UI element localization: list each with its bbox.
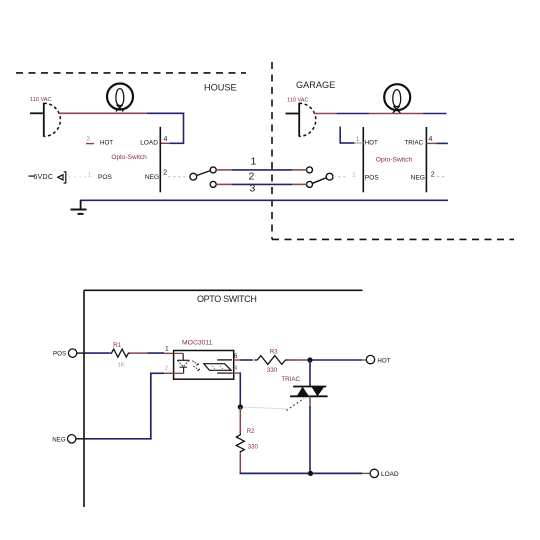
svg-text:3: 3	[250, 183, 256, 195]
svg-text:1K: 1K	[118, 363, 125, 369]
svg-text:R2: R2	[247, 428, 255, 435]
svg-text:1: 1	[251, 156, 257, 168]
svg-text:4: 4	[164, 136, 168, 143]
svg-text:NEG: NEG	[52, 436, 66, 443]
svg-text:NEG: NEG	[145, 174, 159, 181]
svg-text:R3: R3	[270, 349, 278, 356]
svg-text:6: 6	[234, 353, 238, 360]
svg-text:4: 4	[234, 365, 238, 372]
svg-text:R1: R1	[113, 342, 121, 349]
svg-text:LOAD: LOAD	[140, 140, 158, 147]
svg-text:2: 2	[165, 365, 169, 372]
svg-text:POS: POS	[53, 351, 66, 358]
svg-text:POS: POS	[365, 174, 380, 181]
svg-text:110 VAC: 110 VAC	[287, 97, 309, 103]
svg-text:330: 330	[248, 444, 259, 451]
svg-text:TRIAC: TRIAC	[405, 140, 424, 147]
svg-text:330: 330	[267, 367, 278, 374]
svg-text:HOT: HOT	[365, 140, 378, 147]
svg-text:OPTO SWITCH: OPTO SWITCH	[197, 294, 256, 304]
svg-text:LOAD: LOAD	[381, 471, 399, 478]
svg-text:HOT: HOT	[100, 140, 113, 147]
svg-text:2: 2	[249, 170, 255, 182]
svg-text:Opto-Switch: Opto-Switch	[376, 156, 413, 163]
svg-text:6VDC: 6VDC	[34, 174, 54, 181]
svg-text:110 VAC: 110 VAC	[30, 97, 52, 103]
svg-text:TRIAC: TRIAC	[281, 376, 300, 383]
svg-text:Opto-Switch: Opto-Switch	[111, 154, 147, 161]
svg-text:POS: POS	[98, 174, 113, 181]
svg-text:MOC3011: MOC3011	[182, 339, 213, 346]
svg-text:HOUSE: HOUSE	[204, 83, 237, 93]
svg-text:NEG: NEG	[411, 174, 425, 181]
svg-text:HOT: HOT	[377, 358, 390, 365]
svg-text:4: 4	[429, 136, 433, 143]
svg-text:GARAGE: GARAGE	[296, 80, 335, 90]
svg-text:2: 2	[431, 172, 435, 179]
svg-text:1: 1	[165, 346, 169, 353]
svg-text:2: 2	[163, 170, 167, 177]
